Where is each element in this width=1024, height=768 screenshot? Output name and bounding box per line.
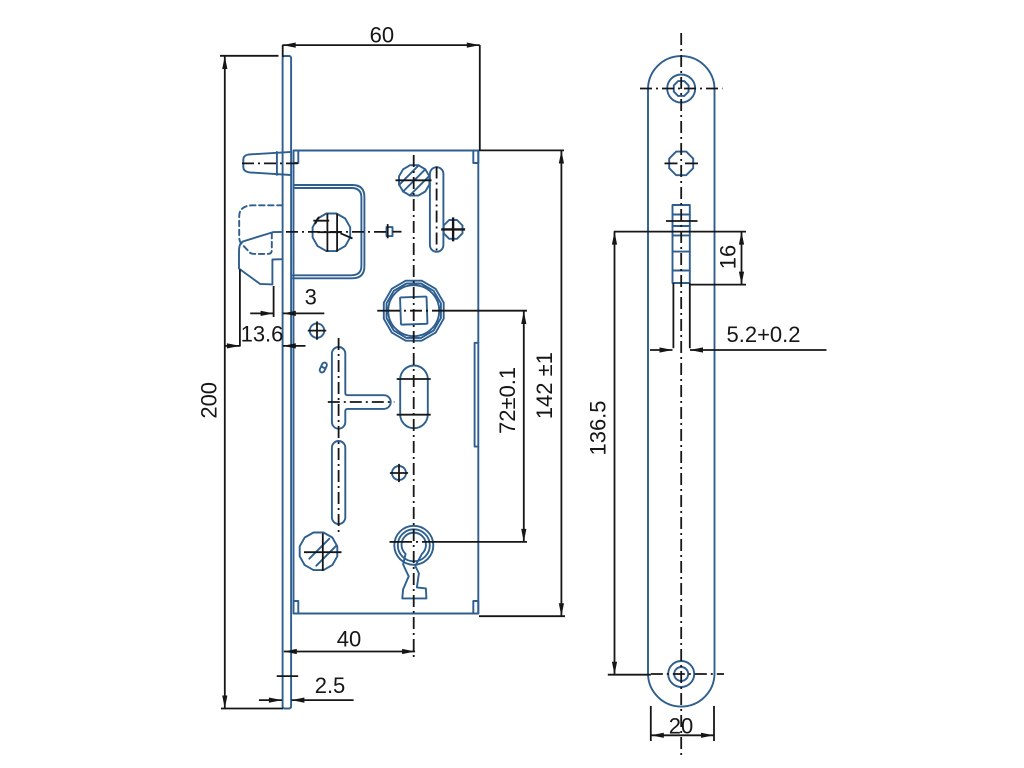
svg-text:40: 40 xyxy=(337,627,361,652)
svg-text:16: 16 xyxy=(716,245,741,269)
svg-text:13.6: 13.6 xyxy=(241,322,284,347)
svg-text:5.2+0.2: 5.2+0.2 xyxy=(726,322,800,347)
svg-text:72±0.1: 72±0.1 xyxy=(495,367,520,434)
svg-text:200: 200 xyxy=(196,382,221,419)
svg-text:142 ±1: 142 ±1 xyxy=(532,352,557,419)
svg-text:136.5: 136.5 xyxy=(586,400,611,455)
svg-text:3: 3 xyxy=(305,285,317,310)
svg-text:2.5: 2.5 xyxy=(315,673,346,698)
svg-text:60: 60 xyxy=(370,23,394,48)
svg-text:20: 20 xyxy=(669,714,693,739)
